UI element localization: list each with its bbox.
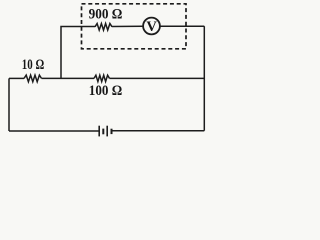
wire: right side vertical <box>203 26 205 131</box>
wire: bottom rail battery to right corner <box>112 130 205 132</box>
svg-text:V: V <box>146 19 157 35</box>
svg-text:10 Ω: 10 Ω <box>22 57 44 73</box>
wire: left side vertical <box>8 78 10 131</box>
wire: resistor R1 to voltmeter <box>112 25 143 27</box>
wire: main rail between 10 ohm and 100 ohm, junction node with branch at x=61 <box>42 77 95 79</box>
svg-text:100 Ω: 100 Ω <box>89 83 122 99</box>
resistor R2 10 ohm (zigzag) <box>24 75 42 82</box>
battery B1 (two cells: tall-short-tall-short plates) <box>99 126 111 137</box>
voltmeter V (circle with letter V) <box>143 18 160 35</box>
wire: main middle rail left segment <box>9 77 24 79</box>
dashed enclosure box around 900-ohm resistor and voltmeter <box>82 4 187 49</box>
resistor R3 100 ohm (zigzag) <box>94 75 110 81</box>
wire: main rail right segment to right side <box>110 77 205 79</box>
resistor R1 900 ohm (zigzag) <box>95 24 112 31</box>
wire: voltmeter to top-right corner <box>160 25 205 27</box>
wire: bottom rail left to battery <box>9 130 99 132</box>
svg-text:900 Ω: 900 Ω <box>89 7 123 23</box>
wire: branch corner at (61,26) into box to resistor R1 left lead <box>61 27 95 79</box>
